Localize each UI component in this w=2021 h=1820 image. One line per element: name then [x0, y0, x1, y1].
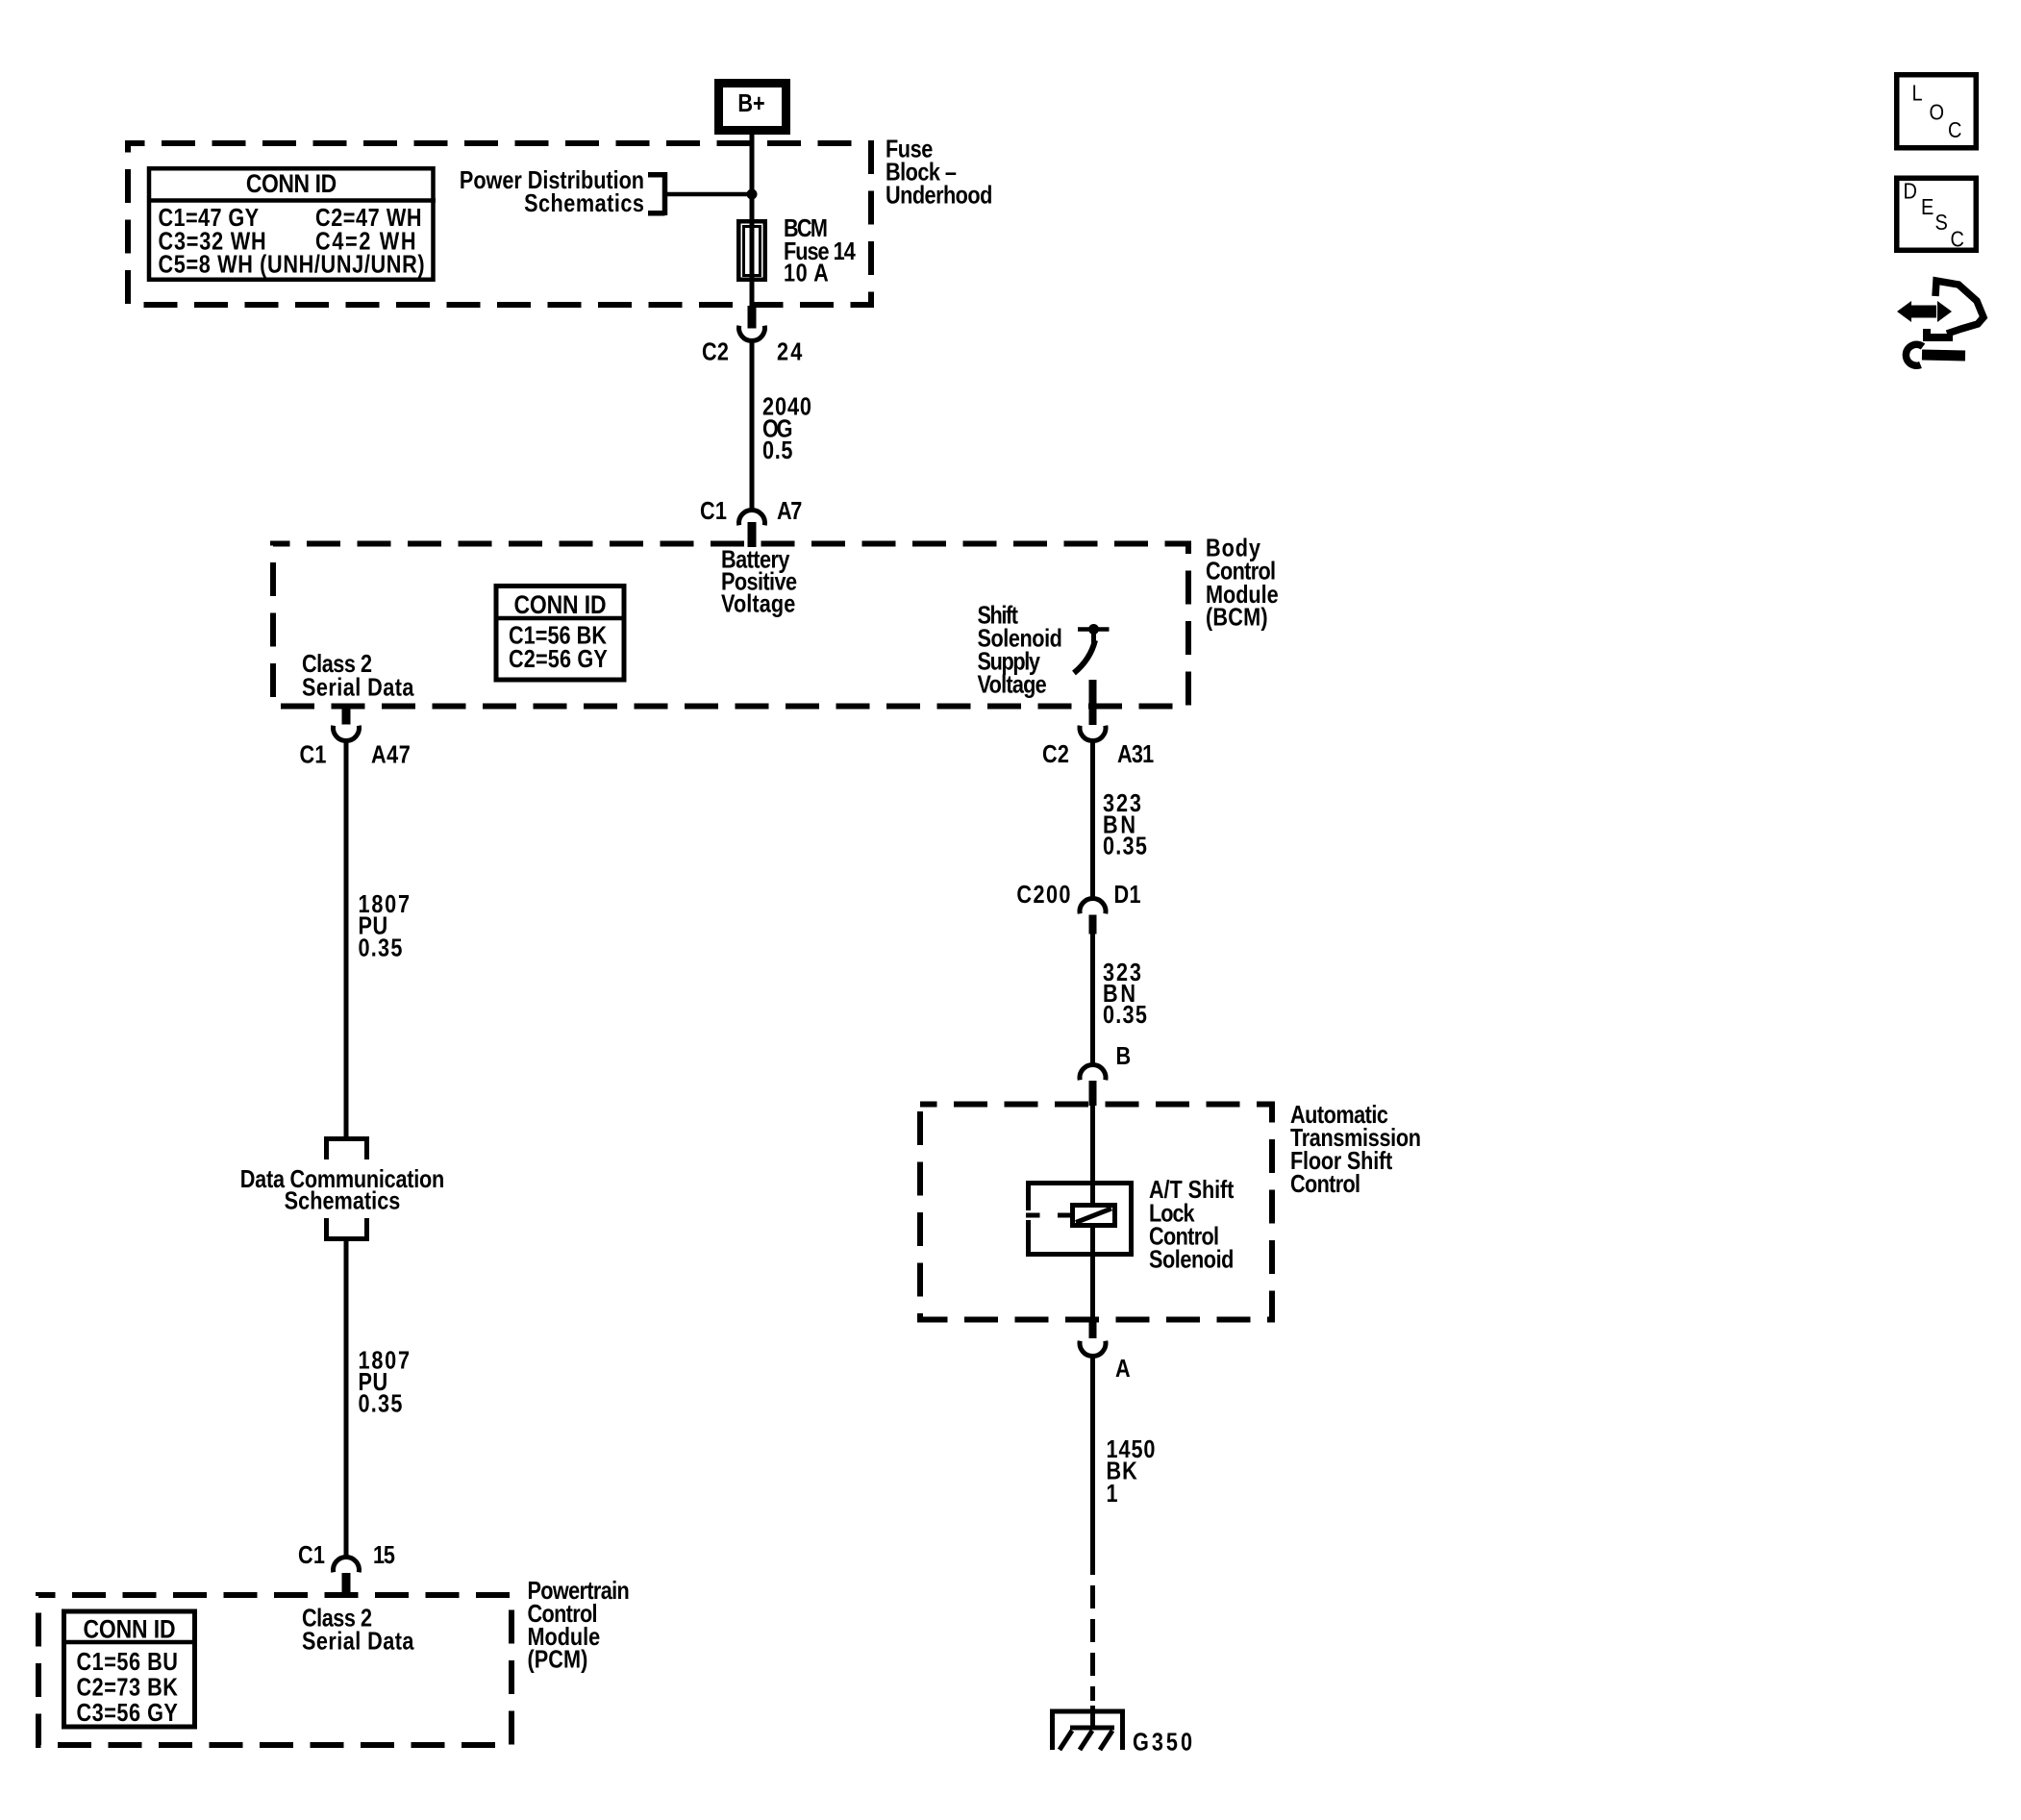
LOC icon box [1897, 75, 1977, 148]
body control module label [1206, 536, 1279, 632]
fuse BCM Fuse 14 10A [738, 215, 856, 287]
data communication schematics reference [240, 1139, 445, 1239]
svg-text:CONN ID: CONN ID [83, 1615, 175, 1644]
CONN ID table PCM [62, 1611, 197, 1727]
svg-text:0.35: 0.35 [1103, 1002, 1147, 1029]
junction node on battery feed [747, 189, 758, 200]
svg-text:0.5: 0.5 [762, 437, 792, 464]
wire 323 BN 0.35 upper [1090, 742, 1095, 897]
svg-text:C2=73 BK: C2=73 BK [77, 1675, 178, 1702]
svg-text:E: E [1921, 193, 1934, 219]
svg-text:C1: C1 [299, 742, 326, 769]
svg-text:Schematics: Schematics [524, 190, 644, 217]
svg-text:(PCM): (PCM) [528, 1647, 588, 1674]
class 2 serial data label BCM [302, 651, 414, 702]
wire 1807 PU 0.35 lower [344, 1239, 349, 1557]
shift solenoid supply voltage label [978, 603, 1062, 699]
svg-text:C3=56 GY: C3=56 GY [77, 1700, 179, 1727]
svg-text:C200: C200 [1016, 882, 1070, 909]
battery positive voltage label [721, 547, 797, 618]
svg-text:Solenoid: Solenoid [1149, 1247, 1234, 1274]
svg-text:0.35: 0.35 [359, 935, 403, 962]
powertrain control module label [528, 1578, 630, 1674]
ground G350 [1050, 1709, 1192, 1757]
DESC icon box [1897, 178, 1977, 252]
B+ battery terminal [719, 84, 786, 131]
svg-text:Underhood: Underhood [886, 183, 992, 210]
power distribution schematics reference [460, 167, 749, 217]
svg-text:G350: G350 [1133, 1730, 1192, 1757]
fuse block underhood dashed box [128, 143, 871, 305]
dashed wire to ground [1090, 1575, 1095, 1701]
svg-text:S: S [1935, 209, 1948, 235]
wire 1807 PU 0.35 upper [344, 740, 349, 1136]
svg-text:C1=56 BU: C1=56 BU [77, 1649, 178, 1676]
svg-text:A47: A47 [371, 742, 411, 769]
svg-text:Voltage: Voltage [978, 672, 1047, 699]
wire B+ to fuse block junction [750, 135, 755, 306]
svg-text:Voltage: Voltage [721, 591, 795, 618]
svg-text:Schematics: Schematics [285, 1188, 401, 1215]
CONN ID table fuse block [147, 168, 436, 280]
svg-text:D1: D1 [1114, 882, 1141, 909]
connector C1 pin 15 (PCM inlet) [298, 1542, 395, 1596]
CONN ID table BCM [494, 586, 625, 681]
powertrain control module dashed box [38, 1595, 511, 1745]
jump arrows icon [1897, 281, 1984, 337]
svg-text:D: D [1904, 178, 1917, 204]
automatic transmission floor shift control dashed box [920, 1105, 1272, 1320]
svg-text:0.35: 0.35 [359, 1391, 403, 1418]
svg-text:10 A: 10 A [784, 261, 829, 287]
svg-text:C1: C1 [298, 1542, 325, 1569]
connector C2 pin A31 (BCM right outlet) [1042, 680, 1154, 768]
automatic transmission floor shift control label [1290, 1102, 1421, 1198]
svg-text:(BCM): (BCM) [1206, 605, 1268, 632]
svg-text:1: 1 [1107, 1481, 1118, 1508]
svg-text:24: 24 [777, 339, 803, 366]
wire through shifter box [1090, 1106, 1095, 1321]
svg-text:A: A [1115, 1356, 1131, 1383]
svg-text:A7: A7 [777, 498, 802, 525]
connector C200 pin D1 (inline) [1016, 882, 1140, 934]
svg-text:C2: C2 [1042, 741, 1069, 768]
svg-text:C2: C2 [702, 339, 729, 366]
connector C1 pin A47 (BCM left outlet) [299, 707, 410, 769]
svg-text:15: 15 [373, 1542, 395, 1569]
A/T shift lock control solenoid [1026, 1177, 1235, 1274]
svg-text:C1: C1 [700, 498, 727, 525]
fuse block label [886, 137, 992, 210]
svg-text:A31: A31 [1117, 741, 1154, 768]
svg-text:C5=8 WH (UNH/UNJ/UNR): C5=8 WH (UNH/UNJ/UNR) [159, 252, 425, 279]
svg-text:C: C [1948, 116, 1961, 142]
svg-text:B+: B+ [737, 90, 764, 117]
class 2 serial data label PCM [302, 1606, 414, 1656]
body control module dashed box [273, 544, 1188, 707]
svg-text:C: C [1951, 226, 1964, 252]
connector pin A (shifter outlet) [1080, 1320, 1131, 1383]
wire 1450 BK 1 [1090, 1357, 1095, 1575]
svg-text:CONN ID: CONN ID [246, 169, 337, 198]
svg-text:Serial Data: Serial Data [302, 1629, 414, 1656]
switch shift solenoid supply inside BCM [1074, 624, 1110, 673]
wrench icon [1906, 344, 1965, 365]
svg-text:Serial Data: Serial Data [302, 675, 414, 702]
wire 323 BN 0.35 lower [1090, 934, 1095, 1063]
svg-text:L: L [1912, 80, 1923, 106]
svg-text:Control: Control [1290, 1171, 1360, 1198]
svg-text:O: O [1930, 99, 1945, 125]
svg-text:CONN ID: CONN ID [513, 590, 606, 619]
connector pin B (shifter inlet) [1080, 1043, 1131, 1106]
connector C2 pin 24 (fuse block outlet) [702, 306, 803, 366]
svg-text:0.35: 0.35 [1103, 834, 1147, 860]
wire 2040 OG 0.5 [750, 342, 755, 509]
svg-text:C2=56 GY: C2=56 GY [509, 646, 608, 673]
connector C1 pin A7 (BCM inlet) [700, 498, 802, 547]
svg-text:B: B [1116, 1043, 1132, 1070]
